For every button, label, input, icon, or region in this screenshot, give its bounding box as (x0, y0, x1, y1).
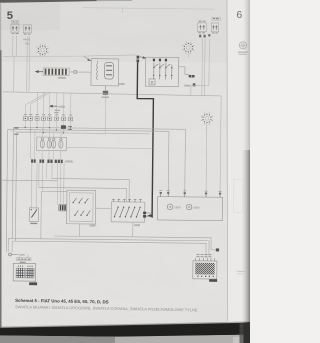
headlamp E3 (right inner) (198, 23, 207, 32)
wire: right vertical from y94 (220, 96, 221, 194)
label box above right headlamps (212, 17, 220, 20)
connector: small square on lead (74, 70, 77, 73)
black book-edge band (0, 323, 250, 337)
column switch SW2 (111, 199, 145, 222)
outer box (13, 263, 36, 281)
wire: E2 pin drops long (26, 36, 29, 92)
pin labels above H2 (197, 254, 212, 256)
connector under K1 (103, 91, 108, 95)
wire: bus L1 (13, 127, 185, 129)
inline connector on buses (61, 125, 66, 129)
label E1 (box above left headlamp) (11, 20, 18, 23)
wire: left vertical x13 (12, 127, 13, 238)
boxed label row (17, 258, 31, 261)
wire: right headlamp drops (201, 39, 204, 96)
wire: y181.8 line (2, 179, 58, 182)
connector block CB (bottom left) (13, 258, 36, 282)
wire: drop from feed bus (13, 56, 15, 92)
gauge unit box G1 (157, 197, 222, 221)
resistor box R inside K2 (149, 79, 155, 85)
relay K1 (intermittence unit) (91, 59, 119, 86)
headlamp E4 (right outer) (211, 23, 218, 32)
wire: drops below connector row (31, 163, 64, 208)
label at bus L2 right (68, 128, 72, 130)
wire: SW2 bottom stub (132, 222, 134, 237)
svg-text:R: R (151, 80, 154, 85)
instrument cluster P1 (37, 137, 67, 151)
wire: bus L1 right drop (184, 129, 187, 194)
label at bus L3 left end (14, 133, 18, 135)
K2 top pin row (153, 59, 167, 62)
label: stacked codes (54, 109, 60, 111)
WT label (20, 261, 26, 263)
soft top shading (0, 0, 250, 62)
connector at left of gauge box (143, 212, 146, 215)
wire: long bottom line y237 (54, 236, 211, 238)
label under CB (29, 282, 37, 285)
schematic group (slight scan skew) (1, 7, 225, 287)
wire: SW1 bottom stub (78, 224, 80, 236)
gauge lamp 2 (186, 204, 192, 210)
wire: bus L2 right drop (167, 131, 170, 194)
wire: faint top rule (83, 8, 215, 9)
wire: cluster stems up (30, 128, 61, 160)
tiny labels above gauge pins (159, 190, 221, 193)
wire: left vertical x16 (15, 132, 16, 241)
connector marks under E3 (199, 35, 201, 38)
wire: dashed link between headlamps (19, 24, 23, 26)
wire: drops from y94 bus to fuses (25, 92, 71, 117)
wire: K1 bottom pin (104, 86, 106, 91)
wire: y179.5 line to S2 box (52, 179, 130, 202)
wire: dark main feed W1 (136, 63, 154, 214)
right margin strip (adjacent page) (227, 0, 250, 343)
svg-text:VN: VN (25, 41, 29, 45)
label under C1 (58, 77, 66, 79)
wire: drops from fuses to buses (25, 120, 70, 133)
left scan edge dark line (0, 50, 2, 336)
connector node S1 (round multipin) (36, 44, 48, 56)
wire: left vertical x7 (6, 129, 7, 252)
wire: K2 right exit (179, 67, 190, 75)
connector block left of SW1 (59, 204, 67, 210)
svg-text:5960: 5960 (119, 82, 126, 86)
svg-text:5960: 5960 (89, 224, 96, 228)
wire: right lead of C1 to K1 (69, 71, 91, 73)
svg-text:5960E: 5960E (65, 160, 74, 164)
caption group (15, 298, 198, 313)
gauge box top pins (161, 194, 220, 198)
wire: branch into relay K1 with arrowhead (83, 56, 89, 59)
wire: headlamp feed bus y~57 (3, 55, 83, 57)
grey strip below band (left) (0, 335, 115, 343)
wire: bus L2b (10, 130, 65, 133)
H2 box (193, 261, 217, 279)
node dots on buses (24, 127, 71, 134)
grey strip below band (right) (115, 335, 250, 343)
top scan edge dark line (0, 0, 97, 3)
H2 bottom dot row (197, 276, 214, 278)
label: arrow+code near fusebox (51, 105, 58, 107)
connector row under cluster (31, 159, 63, 163)
wire: long bottom line y242.5 (12, 241, 206, 243)
wire: arrow into relay K2 (139, 57, 144, 58)
wire: long cross bus y~94 (3, 92, 221, 96)
wire: cluster stems down (42, 151, 61, 160)
connector C2 (inline, at x136) (137, 56, 140, 59)
pin dots above halves (18, 265, 33, 266)
wire: CB top leads (19, 256, 21, 257)
H2 pins (196, 258, 215, 261)
label: pins under E2 (24, 33, 31, 35)
svg-text:5960: 5960 (174, 205, 181, 209)
H2 dithered block (195, 263, 215, 275)
warning lamp 3 (52, 140, 56, 148)
wire: S2 stub to K2 (187, 53, 189, 57)
paper background (0, 0, 250, 343)
svg-text:5960: 5960 (19, 253, 26, 257)
wire: ring lead (11, 254, 18, 256)
warning lamp 2 (47, 140, 51, 148)
warning lamp 1 (40, 140, 44, 148)
wire: branch to connector and relay K2 (83, 54, 136, 56)
label under SR1 (30, 222, 37, 224)
wire: cluster to W1 link (66, 147, 152, 150)
arrow at W1 end (147, 213, 153, 217)
stamp circle on next page (233, 42, 248, 274)
svg-text:5960: 5960 (184, 84, 191, 88)
connector C1 (hatched inline connector) (43, 68, 69, 76)
node: tick on top rule (122, 8, 124, 12)
fuse row F1..F8 (23, 114, 72, 120)
headlamp E1 (left outer) (11, 24, 19, 32)
connector node S3 (round multipin) (201, 112, 213, 124)
label at bus L1 left end (14, 127, 18, 129)
tiny margin text right (237, 270, 245, 272)
wire: bus L3 (17, 132, 150, 134)
right page-edge dark gradient (243, 0, 250, 150)
element inside K1 (105, 62, 114, 79)
light switch SW1 (67, 190, 96, 224)
connector under K2 exit (189, 75, 192, 78)
reversing lamp switch SR1 (29, 208, 38, 222)
coil inside K1 (97, 63, 98, 80)
wire: left drops into connector CB (7, 238, 9, 252)
rear lamp unit H2 (dithered) (193, 254, 217, 279)
stamp caption (238, 51, 248, 53)
wire: S3 drop to gauge box (205, 124, 208, 195)
label row above E3 (199, 20, 206, 22)
gauge lamp 1 (167, 204, 173, 210)
label at bus L1 right (68, 125, 72, 127)
label under H2 (209, 279, 217, 282)
connector node S2 (round multipin) (182, 42, 194, 54)
hatched half 1 (16, 268, 24, 278)
terminal ring CB (9, 253, 12, 256)
warning lamp 4 (59, 140, 63, 148)
relay K2 (main/dip beam relay) (145, 57, 178, 86)
wire: E1 pin drops (12, 36, 14, 57)
wire: long bottom line y240 (8, 238, 209, 240)
headlamp E2 (left inner) (23, 25, 31, 33)
wire: left lead of C1 with arrow (38, 71, 43, 73)
wire: K1 connector drop (104, 95, 106, 134)
label: pins under E1 (12, 33, 19, 35)
wire: y188.5 line to S2 box (39, 187, 127, 201)
svg-text:6: 6 (236, 9, 242, 21)
wire: right drops to rear unit (210, 238, 212, 250)
hatched half 2 (26, 268, 34, 278)
svg-text:5960: 5960 (134, 223, 141, 227)
faint diagram rect on next page (234, 179, 243, 212)
wire: y192.3 line into switch (41, 190, 67, 192)
label: pins under E3/E4 (198, 32, 218, 34)
dark bottom-right corner (244, 322, 251, 343)
page gutter separator line (226, 0, 229, 321)
wire: SW1 to SW2 link (96, 207, 112, 209)
wire: x41.6 drop (40, 191, 43, 239)
wire: stub to connector dot (211, 249, 216, 251)
connector blob right (216, 248, 219, 251)
svg-text:5960: 5960 (58, 105, 65, 109)
svg-text:5960: 5960 (193, 206, 200, 210)
wire: bus L2 (8, 129, 169, 131)
